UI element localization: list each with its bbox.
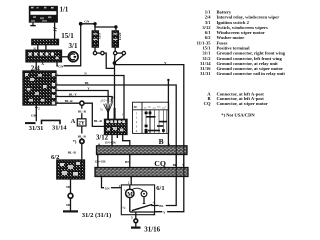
fuse 11/9 output terminals: [94, 47, 96, 51]
wire B to CQ left: [97, 155, 99, 168]
fuse 11/20: [112, 31, 118, 47]
brush arc: [132, 188, 144, 190]
fan terminal labels: [100, 97, 123, 117]
wire 3/12 to connector B jog: [123, 135, 130, 146]
svg-text:53e: 53e: [153, 108, 156, 110]
svg-text:BL-R: BL-R: [78, 134, 87, 138]
relay wire BL to motor: [55, 85, 176, 206]
wire CQ to motor pin 1 GN: [102, 177, 105, 188]
svg-text:31/16: 31/16: [144, 225, 160, 233]
svg-text:31/14: 31/14: [52, 124, 67, 131]
wire junction to fuses: [81, 24, 116, 27]
ground: [131, 227, 141, 229]
wire ignition block to relay: [35, 62, 37, 71]
ground connector 31/14: [42, 120, 61, 124]
connector node: [80, 139, 84, 143]
Y contact line: [130, 211, 155, 213]
relay pin numbers: [57, 73, 59, 104]
ground 31/2: [63, 210, 78, 212]
svg-text:BL-R: BL-R: [68, 150, 77, 154]
svg-text:GN: GN: [105, 187, 111, 191]
svg-text:GN-GR: GN-GR: [95, 160, 107, 164]
interval relay 2/4: [23, 71, 56, 105]
svg-text:BL-R: BL-R: [94, 119, 103, 123]
svg-text:Ground connector rail in relay: Ground connector rail in relay unit: [217, 71, 286, 76]
svg-text:30: 30: [133, 105, 137, 109]
svg-text:15/1: 15/1: [61, 32, 74, 40]
motor wire label Y: [162, 209, 167, 214]
wire BL-R to switch 3/12: [84, 103, 104, 126]
ignition switch key symbol: [68, 52, 78, 62]
svg-text:11/9: 11/9: [97, 33, 101, 39]
switch position table: [133, 102, 169, 133]
svg-text:GN-GR: GN-GR: [105, 141, 117, 145]
svg-text:6/2: 6/2: [51, 154, 60, 161]
svg-text:1/1: 1/1: [60, 7, 69, 14]
svg-text:*): *): [73, 139, 77, 144]
svg-text:BN: BN: [125, 160, 130, 164]
wire B to CQ: [129, 155, 131, 168]
washer motor 6/2: [57, 160, 85, 179]
svg-text:GN: GN: [58, 65, 64, 69]
ground rail 31/31: [25, 122, 36, 124]
contact lever: [132, 205, 152, 211]
connector CQ bar: [95, 168, 188, 177]
svg-text:2/4: 2/4: [31, 65, 40, 73]
svg-text:31/31: 31/31: [29, 125, 44, 132]
relay wire Y to switch 3/12: [55, 91, 108, 104]
svg-text:SB: SB: [66, 203, 71, 207]
wire CQ to motor pin 2: [130, 177, 132, 185]
svg-text:X: X: [41, 61, 44, 66]
legend: [197, 10, 286, 118]
svg-text:31/31: 31/31: [200, 71, 211, 76]
wire stub into connector B: [167, 81, 169, 146]
fuse 11/20 output terminals: [114, 47, 116, 51]
wire 15/1 to ignition switch: [37, 45, 39, 51]
relay ground pin 2 wire: [35, 105, 37, 121]
wire Y from fuse 11/20 to connector CQ and motor: [114, 63, 183, 212]
connector A: [77, 119, 86, 127]
connector B bar: [97, 146, 188, 155]
svg-text:*) Not USA/CDN: *) Not USA/CDN: [221, 112, 255, 117]
motor wire label BL: [159, 203, 166, 208]
wire ignition X terminal loop up to fuses: [57, 62, 58, 66]
wire fuse 11/9 output to connector B: [104, 53, 114, 68]
wire 3/12 to connector B: [111, 135, 113, 146]
svg-text:Connector, at wiper motor: Connector, at wiper motor: [217, 101, 268, 106]
svg-text:I: I: [122, 114, 123, 117]
relay wire BL-R: [55, 102, 80, 104]
svg-text:BL-Y: BL-Y: [69, 93, 78, 97]
motor M: [126, 189, 134, 197]
connector A node down from relay: [81, 105, 83, 118]
svg-text:2Y: 2Y: [78, 121, 85, 127]
motor ground wire 31/16: [135, 212, 137, 219]
svg-text:GN: GN: [84, 20, 90, 24]
node: [113, 61, 117, 65]
svg-text:GR: GR: [31, 113, 37, 117]
svg-text:31/2 (31/1): 31/2 (31/1): [82, 212, 112, 219]
wiper switch 3/12: [105, 119, 128, 134]
wire label BL-R: [78, 109, 87, 114]
washer motor ground wire: [70, 179, 72, 193]
svg-text:CQ: CQ: [154, 159, 166, 168]
connector node: [80, 101, 84, 105]
svg-text:2: 2: [38, 106, 40, 110]
svg-text:BL-R: BL-R: [65, 99, 74, 103]
ignition switch 3/1 connector block: [26, 50, 62, 62]
wire A to washer motor: [81, 126, 83, 139]
wire label BL-R: [68, 149, 78, 154]
connector node: [68, 193, 73, 198]
battery 1/1: [29, 6, 58, 26]
wire battery to 15/1: [54, 23, 56, 40]
wire fuse 11/20 output junction: [114, 55, 116, 62]
bar terminal ticks: [98, 144, 184, 179]
svg-text:11/20: 11/20: [118, 32, 122, 40]
svg-text:BL: BL: [85, 81, 90, 85]
wire: [45, 45, 47, 51]
relay wire N to switch 3/12: [55, 76, 124, 120]
svg-text:A: A: [71, 118, 76, 125]
svg-text:BL: BL: [159, 204, 164, 208]
junction dot: [79, 22, 83, 26]
svg-text:SB: SB: [66, 185, 71, 189]
park contact: [141, 191, 147, 197]
relay wire BL-Y to switch fan: [55, 97, 112, 104]
svg-text:CQ: CQ: [204, 101, 211, 106]
svg-text:M: M: [127, 192, 133, 198]
wiper motor 6/1: [121, 185, 155, 217]
svg-text:6/1: 6/1: [156, 185, 164, 192]
wire block to circle: [62, 56, 69, 58]
svg-text:BL-R: BL-R: [78, 110, 87, 114]
svg-text:53a: 53a: [148, 107, 151, 109]
positive terminal 15/1: [32, 39, 59, 44]
svg-text:3/1: 3/1: [69, 42, 78, 50]
svg-text:B: B: [159, 137, 164, 146]
fuse 11/9: [92, 31, 98, 47]
switch fan wires into 3/12: [114, 64, 116, 120]
